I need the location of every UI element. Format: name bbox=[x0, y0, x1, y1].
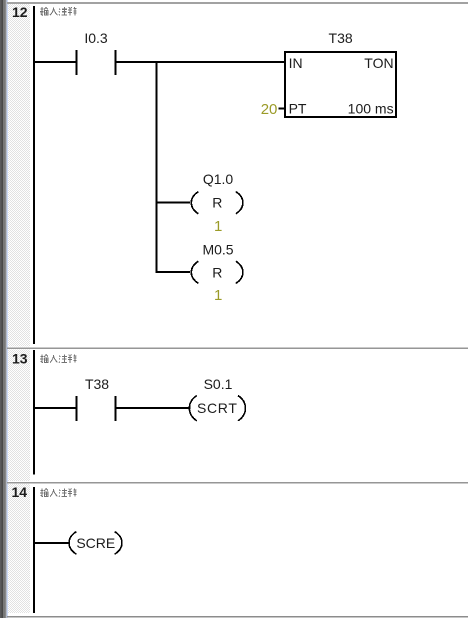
svg-text:T38: T38 bbox=[329, 30, 353, 46]
operand 20 on PT pin bbox=[261, 101, 285, 118]
network 14 margin column bbox=[8, 484, 30, 613]
svg-text:TON: TON bbox=[364, 55, 393, 71]
svg-text:SCRE: SCRE bbox=[76, 535, 115, 551]
wire rail to coil SCRE bbox=[35, 542, 70, 544]
svg-text:12: 12 bbox=[12, 4, 28, 20]
separator between network 13 and 14 bbox=[7, 482, 468, 484]
svg-text:13: 13 bbox=[12, 351, 28, 367]
wire branch to coil M0.5 bbox=[157, 271, 190, 273]
wire contact to coil SCRT bbox=[117, 407, 191, 409]
separator between network 12 and 13 bbox=[7, 347, 468, 349]
wire contact to timer box bbox=[117, 61, 285, 63]
wire rail to contact T38 bbox=[35, 407, 76, 409]
top separator line bbox=[7, 2, 468, 4]
coil M0.5 (R) 1 bbox=[191, 242, 243, 304]
svg-text:PT: PT bbox=[289, 101, 307, 117]
svg-text:20: 20 bbox=[261, 101, 278, 118]
network 12 comment 输入注释 (drawn strokes) bbox=[40, 7, 77, 15]
network 14 left power rail bbox=[33, 487, 35, 613]
network 13 margin column bbox=[8, 349, 30, 481]
svg-text:100 ms: 100 ms bbox=[348, 101, 394, 117]
svg-text:I0.3: I0.3 bbox=[84, 30, 108, 46]
svg-text:M0.5: M0.5 bbox=[202, 242, 233, 258]
svg-text:1: 1 bbox=[214, 218, 222, 235]
network 12 left power rail bbox=[33, 6, 35, 344]
wire rail to contact bbox=[35, 61, 76, 63]
network 13 left power rail bbox=[33, 350, 35, 474]
svg-text:R: R bbox=[212, 264, 222, 280]
contact I0.3 bbox=[76, 30, 117, 75]
contact T38 bbox=[76, 376, 117, 421]
svg-text:R: R bbox=[212, 195, 222, 211]
coil (SCRE) bbox=[69, 532, 122, 555]
svg-text:IN: IN bbox=[289, 55, 303, 71]
branch vertical wire bbox=[155, 61, 157, 273]
timer U: T38 TON box bbox=[285, 30, 396, 117]
svg-text:T38: T38 bbox=[85, 376, 109, 392]
wire branch to coil Q1.0 bbox=[157, 202, 190, 204]
network 12 margin column bbox=[8, 4, 30, 347]
network 13 comment 输入注释 (drawn strokes) bbox=[40, 355, 77, 363]
window left border strip bbox=[0, 0, 8, 618]
svg-text:14: 14 bbox=[12, 484, 28, 500]
coil S0.1 (SCRT) bbox=[189, 376, 245, 421]
coil Q1.0 (R) 1 bbox=[191, 171, 243, 235]
svg-text:SCRT: SCRT bbox=[197, 400, 238, 416]
bottom separator line bbox=[7, 616, 468, 618]
svg-text:S0.1: S0.1 bbox=[204, 376, 233, 392]
network 14 comment 输入注释 (drawn strokes) bbox=[40, 489, 77, 497]
svg-text:Q1.0: Q1.0 bbox=[203, 171, 234, 187]
svg-text:1: 1 bbox=[214, 287, 222, 304]
